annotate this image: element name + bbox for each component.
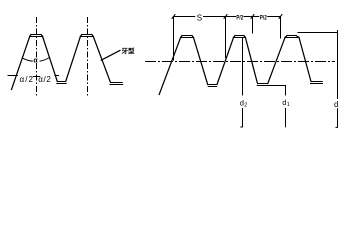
svg-text:d: d xyxy=(334,100,338,109)
svg-text:α/2: α/2 xyxy=(38,75,51,84)
svg-text:1: 1 xyxy=(287,102,290,108)
svg-text:P/2: P/2 xyxy=(236,14,243,21)
svg-text:α: α xyxy=(33,58,38,65)
svg-text:α/2: α/2 xyxy=(20,75,34,84)
svg-text:S: S xyxy=(197,13,202,22)
svg-text:2: 2 xyxy=(244,103,247,109)
svg-text:牙型: 牙型 xyxy=(122,46,136,55)
svg-text:P/2: P/2 xyxy=(260,14,267,21)
